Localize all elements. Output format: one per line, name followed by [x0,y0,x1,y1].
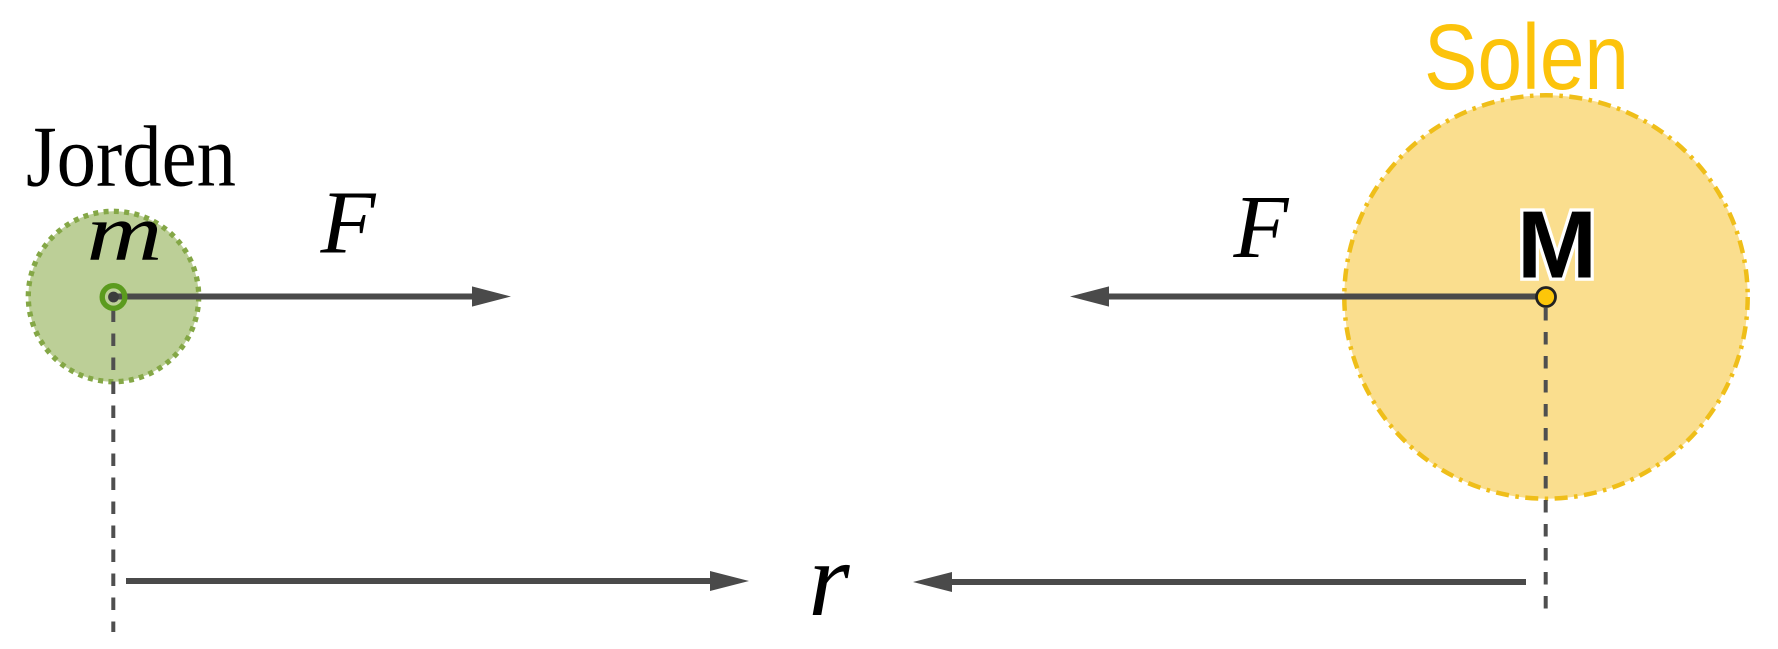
dashed vertical drop line from Earth center [111,310,115,633]
dashed vertical drop line from Sun center [1544,308,1548,617]
label Solen [1424,5,1629,109]
mass label M (Sun), white halo [1517,192,1597,299]
force arrow F on Earth (points right) [114,286,512,306]
svg-text:m: m [87,187,163,278]
point marker m at Earth center [102,286,125,309]
sun disc Solen, dash-dot gold border [1344,95,1747,498]
force label F (left) [320,174,377,273]
distance label r [808,521,850,638]
mass label m (Earth) [87,187,163,278]
svg-text:F: F [320,174,377,273]
svg-text:F: F [1233,178,1290,277]
planet disc Jorden (Earth), dotted green border [28,211,198,381]
distance arrow r (left half, points right) [126,571,749,591]
svg-text:M: M [1517,192,1597,299]
label Jorden [26,108,236,205]
svg-text:Solen: Solen [1424,5,1629,109]
distance arrow r (right half, points left) [913,572,1526,592]
svg-text:r: r [808,521,850,638]
force label F (right) [1233,178,1290,277]
force arrow F on Sun (points left) [1070,286,1546,306]
point marker M at Sun center [1537,288,1556,307]
